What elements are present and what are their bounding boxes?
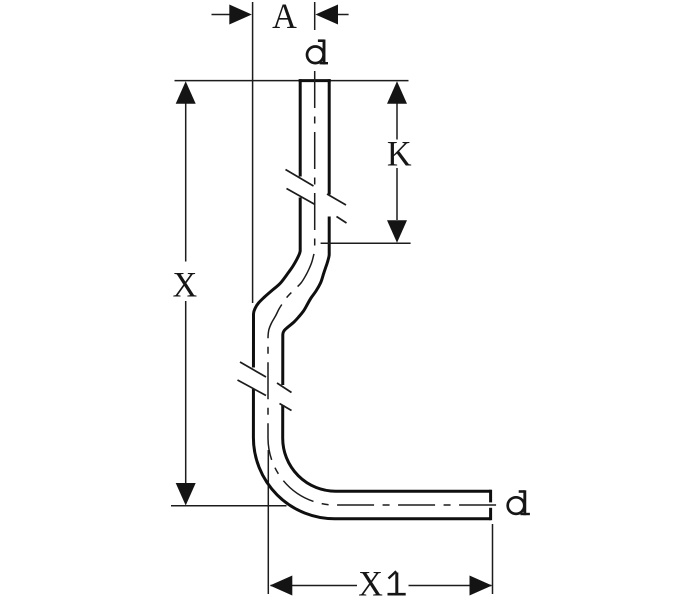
- break 2 wall gap left: [249, 368, 258, 390]
- arrowhead X top (points up): [176, 81, 196, 104]
- break 1 wall gap right: [325, 195, 334, 217]
- pipe centerline (dash-dot): [268, 71, 500, 505]
- dimension A left tail: [212, 14, 231, 16]
- extension line X1 right vertical: [492, 524, 494, 594]
- dimension line K lower segment: [396, 168, 398, 220]
- dimension line X lower segment: [185, 301, 187, 483]
- dimension A right tail: [337, 14, 349, 16]
- break 2 wall gap right: [278, 385, 288, 405]
- svg-text:A: A: [272, 0, 297, 36]
- dimension line K upper segment: [396, 103, 398, 140]
- break 2 slash lower, right part: [280, 404, 292, 411]
- svg-text:X: X: [173, 265, 198, 305]
- break 1 slash lower, right part: [337, 217, 347, 224]
- arrowhead A right (points left): [315, 5, 338, 25]
- label X1 1 (typewriter style): [388, 571, 406, 594]
- break 1 slash lower, left part: [287, 189, 316, 205]
- pipe top rim: [299, 79, 331, 82]
- break 1 wall gap left: [296, 177, 305, 198]
- K extension line bottom (over pipe): [321, 242, 411, 244]
- arrowhead K top (points up): [387, 81, 407, 104]
- break 1 slash upper, right part: [327, 194, 346, 205]
- break 1 slash upper, left part: [286, 170, 314, 187]
- arrowhead X1 left (points left): [270, 576, 293, 596]
- break 2 slash lower, left part: [238, 380, 267, 396]
- arrowhead X1 right (points right): [470, 576, 493, 596]
- label d bottom (typewriter style): [508, 490, 530, 515]
- break 2 slash upper, right part: [277, 383, 292, 393]
- extension line top (shared X/K datum): [175, 80, 409, 82]
- arrowhead A left (points right): [229, 5, 252, 25]
- arrowhead K bottom (points down): [387, 220, 407, 243]
- pipe right/inner wall: [283, 79, 491, 491]
- extension line X1 left vertical: [267, 450, 269, 594]
- extension line left vertical for A: [252, 2, 254, 303]
- label d top (typewriter style): [307, 40, 328, 65]
- pipe end cap: [489, 490, 492, 503]
- dimension line X1 left segment: [271, 585, 358, 587]
- extension line right vertical for A (above d): [314, 2, 316, 30]
- arrowhead X bottom (points down): [176, 483, 196, 506]
- break 2 slash upper, left part: [240, 362, 266, 377]
- svg-text:X: X: [358, 564, 383, 600]
- dimension line X upper segment: [185, 103, 187, 262]
- pipe left/outer wall: [253, 79, 490, 519]
- pipe end cap lower part: [489, 508, 492, 520]
- extension line bottom left (X datum): [171, 505, 287, 507]
- dimension line X1 right segment: [409, 585, 492, 587]
- svg-text:K: K: [387, 134, 412, 174]
